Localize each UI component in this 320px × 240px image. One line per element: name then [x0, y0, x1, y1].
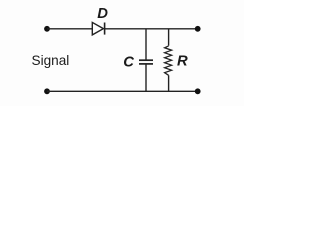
svg-text:R: R — [177, 54, 188, 70]
capacitor C — [139, 60, 153, 64]
node top-left input terminal — [44, 26, 50, 32]
wire top: diode cathode to top-right terminal — [105, 28, 198, 30]
node bottom-right output terminal — [195, 88, 201, 94]
wire top: input terminal to diode anode — [47, 28, 92, 30]
node top-right output terminal — [195, 26, 201, 32]
wire: capacitor branch lower lead — [145, 64, 147, 91]
wire: capacitor branch upper lead — [145, 29, 147, 60]
wire: resistor branch upper lead — [168, 29, 170, 46]
wire bottom: return path — [47, 90, 198, 92]
resistor R — [165, 46, 172, 75]
diode D — [92, 22, 104, 35]
svg-text:Signal: Signal — [32, 53, 70, 68]
svg-text:C: C — [123, 54, 134, 70]
wire: resistor branch lower lead — [168, 75, 170, 91]
svg-text:D: D — [97, 6, 108, 22]
node bottom-left input terminal — [44, 88, 50, 94]
